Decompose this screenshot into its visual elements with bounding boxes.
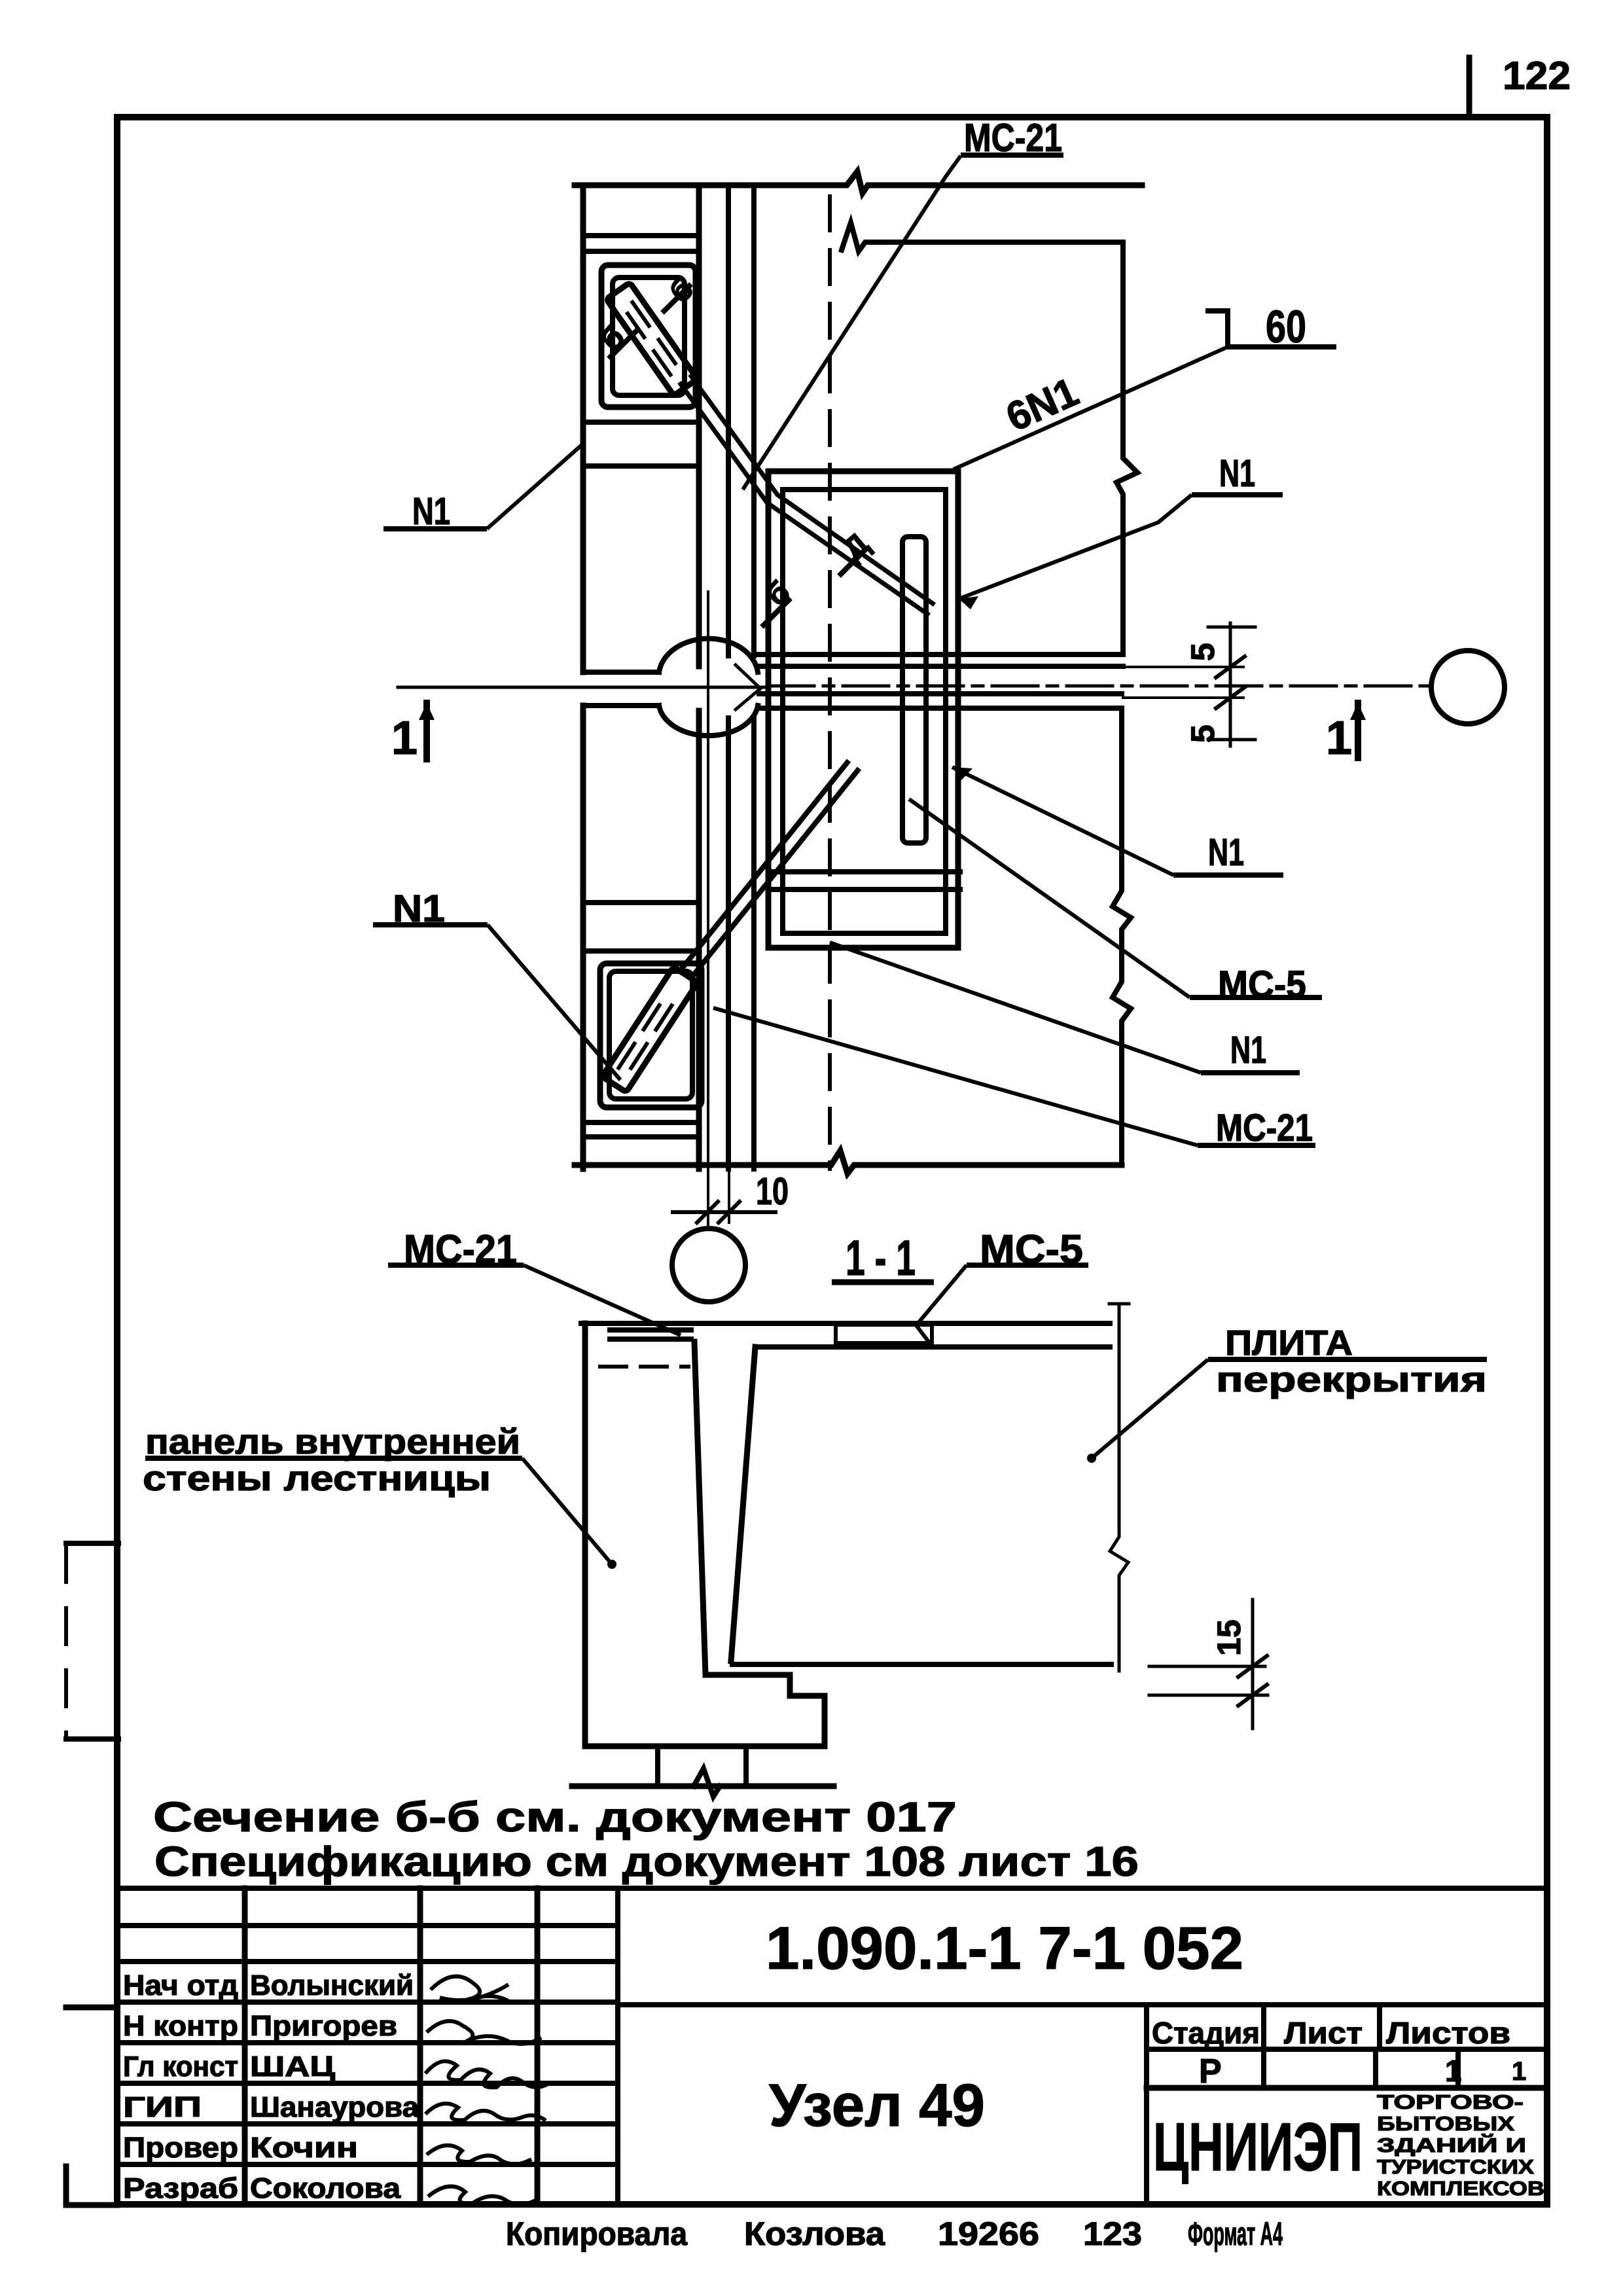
svg-text:МС-21: МС-21	[964, 116, 1062, 160]
svg-text:ТУРИСТСКИХ: ТУРИСТСКИХ	[1377, 2155, 1534, 2178]
svg-text:123: 123	[1083, 2215, 1142, 2252]
svg-text:Листов: Листов	[1386, 2016, 1510, 2050]
svg-text:19266: 19266	[938, 2215, 1039, 2252]
svg-text:Р: Р	[1199, 2053, 1222, 2090]
svg-text:стены лестницы: стены лестницы	[143, 1459, 491, 1498]
svg-text:ГИП: ГИП	[123, 2091, 202, 2123]
svg-text:N1: N1	[1219, 452, 1255, 495]
svg-text:Шанаурова: Шанаурова	[250, 2091, 419, 2123]
svg-text:Пригорев: Пригорев	[250, 2010, 397, 2042]
svg-text:122: 122	[1503, 54, 1571, 98]
svg-text:1: 1	[1445, 2054, 1462, 2088]
svg-text:Козлова: Козлова	[744, 2215, 885, 2252]
svg-text:перекрытия: перекрытия	[1216, 1360, 1487, 1399]
svg-text:МС-5: МС-5	[980, 1227, 1083, 1272]
svg-text:Сечение б-б см. документ: Сечение б-б см. документ 017	[153, 1793, 957, 1840]
svg-text:БЫТОВЫХ: БЫТОВЫХ	[1377, 2112, 1514, 2135]
svg-text:МС-21: МС-21	[404, 1227, 517, 1272]
svg-text:1: 1	[1326, 712, 1352, 764]
svg-text:Н контр: Н контр	[123, 2010, 238, 2042]
svg-text:ШАЦ: ШАЦ	[250, 2051, 335, 2083]
svg-text:МС-21: МС-21	[1216, 1107, 1313, 1149]
svg-text:N1: N1	[412, 490, 450, 533]
svg-text:Формат А4: Формат А4	[1188, 2215, 1283, 2252]
svg-text:Узел 49: Узел 49	[769, 2072, 985, 2139]
svg-text:Гл конст: Гл конст	[123, 2051, 238, 2083]
svg-text:Разраб: Разраб	[123, 2172, 238, 2204]
svg-text:1: 1	[391, 712, 418, 764]
svg-text:Нач отд: Нач отд	[123, 1969, 238, 2001]
svg-text:5: 5	[1185, 643, 1221, 661]
svg-text:1.090.1-1 7-1 052: 1.090.1-1 7-1 052	[766, 1915, 1243, 1982]
svg-text:1: 1	[1512, 2057, 1526, 2086]
svg-text:ТОРГОВО-: ТОРГОВО-	[1377, 2090, 1524, 2113]
svg-text:ЦНИИЭП: ЦНИИЭП	[1153, 2109, 1363, 2185]
svg-text:Волынский: Волынский	[250, 1969, 414, 2001]
svg-text:Провер: Провер	[123, 2132, 238, 2164]
svg-text:Спецификацию см документ 1: Спецификацию см документ 108 лист 16	[154, 1838, 1139, 1885]
svg-text:ЗДАНИЙ И: ЗДАНИЙ И	[1377, 2133, 1526, 2157]
svg-text:15: 15	[1211, 1619, 1247, 1656]
svg-text:ПЛИТА: ПЛИТА	[1225, 1323, 1353, 1363]
svg-text:Стадия: Стадия	[1152, 2016, 1260, 2050]
svg-text:панель внутренней: панель внутренней	[145, 1422, 520, 1462]
svg-text:60: 60	[1266, 301, 1306, 352]
svg-text:КОМПЛЕКСОВ: КОМПЛЕКСОВ	[1377, 2177, 1544, 2200]
svg-text:N1: N1	[1208, 831, 1244, 874]
svg-text:Копировала: Копировала	[506, 2215, 688, 2252]
svg-text:МС-5: МС-5	[1218, 963, 1306, 1006]
svg-text:Кочин: Кочин	[250, 2132, 358, 2164]
svg-text:Лист: Лист	[1284, 2016, 1363, 2050]
svg-text:10: 10	[756, 1170, 789, 1213]
svg-text:Соколова: Соколова	[250, 2172, 401, 2204]
svg-text:N1: N1	[1230, 1029, 1266, 1071]
svg-text:N1: N1	[393, 888, 445, 930]
svg-text:5: 5	[1185, 725, 1221, 743]
svg-text:1 - 1: 1 - 1	[846, 1230, 916, 1286]
